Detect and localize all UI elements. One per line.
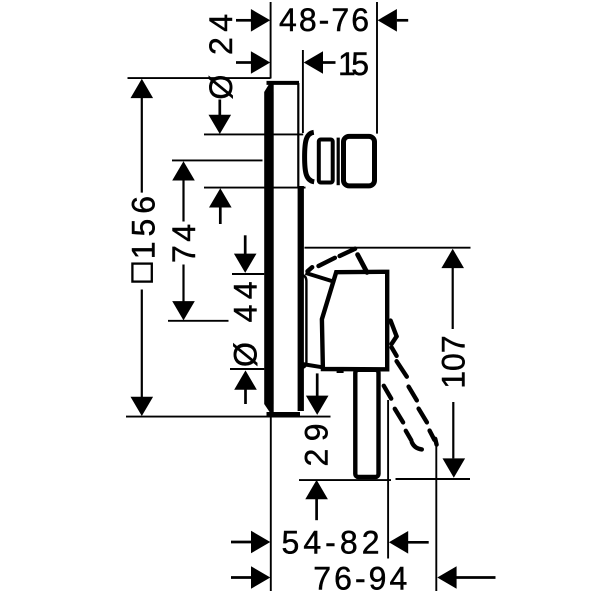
svg-text:156: 156 (126, 196, 162, 259)
arrowhead 29 down (306, 396, 329, 415)
svg-text:54-82: 54-82 (282, 524, 380, 560)
phantom lever top edge dash a1 (308, 267, 313, 271)
wire extension line right of dim 48-76 (376, 2, 378, 134)
phantom lever rotated base corner dash k3 (392, 347, 397, 356)
dim 107 stem top (452, 268, 454, 330)
arrowhead 107 up (441, 249, 464, 268)
arrowhead 156 up (131, 79, 154, 98)
arrowhead 54-82 left (251, 531, 270, 554)
dim 156 stem top (141, 98, 143, 193)
arrowhead 74 down (172, 301, 195, 320)
phantom lever rotated base corner dash k1 (391, 321, 397, 337)
dim 76-94 leader right (456, 576, 495, 579)
dim d24 stem bottom (219, 207, 222, 224)
lever grip (355, 370, 378, 477)
knob collar bell (305, 132, 315, 182)
escutcheon plate back edge upper (297, 83, 299, 187)
lever body set screw tab (337, 369, 344, 373)
dim 54-82 leader left (231, 541, 252, 544)
arrowhead d44 down (234, 254, 257, 273)
dim 48-76 leader right (397, 19, 408, 22)
svg-text:107: 107 (436, 335, 472, 389)
knob joint line (337, 138, 340, 186)
arrowhead d44 up (234, 370, 257, 389)
wire extension line sleeve top (d44) (232, 273, 264, 275)
arrowhead 74 up (172, 161, 195, 180)
wire extension line lever end (76-94) (435, 446, 437, 591)
dim 15 leader right (323, 61, 336, 64)
dim 15 leader left (236, 61, 251, 64)
wire extension line left of dim 48-76 (270, 2, 272, 79)
wire extension line plate top (156) (128, 77, 271, 79)
arrowhead 48-76 right (378, 9, 397, 32)
svg-text:76-94: 76-94 (313, 561, 407, 597)
arrowhead 54-82 right (389, 531, 408, 554)
dim 156 stem bottom (141, 290, 143, 398)
dim 29 stem bottom (315, 499, 318, 520)
phantom grip left line dash d3 (406, 431, 412, 441)
phantom grip end cap dash (412, 442, 422, 449)
wire extension line right of dim 15 (302, 50, 304, 133)
wire extension line lever axis (74) (168, 320, 229, 322)
arrowhead 156 down (131, 397, 154, 416)
arrowhead d24 down (209, 115, 232, 134)
dim 48-76 leader left (236, 19, 251, 22)
svg-text:15: 15 (338, 46, 369, 82)
svg-text:48-76: 48-76 (279, 2, 369, 38)
phantom grip end cap tick (435, 439, 436, 445)
lever neck bottom line (303, 364, 323, 367)
escutcheon plate top edge (267, 81, 300, 85)
arrowhead d24 up (209, 188, 232, 207)
arrowhead 107 down (443, 458, 466, 477)
phantom lever top edge dash a2 (319, 258, 335, 266)
dim 76-94 leader left (231, 576, 252, 579)
wire extension line plate bottom (156/29) (126, 416, 331, 418)
arrowhead 76-94 left (251, 566, 270, 589)
wire extension line knob bottom (d24) (204, 187, 306, 189)
dim 74 stem top (182, 180, 184, 222)
dim 107 stem bottom (452, 402, 454, 458)
escutcheon plate bottom edge (267, 412, 301, 416)
escutcheon plate back edge lower (thick) (298, 186, 304, 411)
knob middle cylinder (319, 140, 333, 183)
wire extension line lever up position (107) (305, 247, 471, 249)
wire extension line grip end (29) (299, 479, 391, 481)
lever body (322, 272, 387, 370)
dim 54-82 leader right (408, 541, 429, 544)
phantom lever right edge start dash b (358, 255, 367, 273)
wire extension line lever end (54-82) (387, 400, 389, 559)
label square156 square symbol (132, 264, 151, 282)
arrowhead 15 left (251, 51, 270, 74)
wire extension line wall face bottom (270, 417, 272, 591)
phantom grip right line dash c3 (419, 409, 427, 423)
arrowhead 48-76 left (251, 9, 270, 32)
dim 29 stem top (316, 373, 319, 396)
phantom grip left line dash d1 (384, 386, 391, 399)
lever neck top line (306, 273, 335, 282)
phantom lever rotated base corner dash k2 (392, 336, 397, 344)
dim d44 stem bottom (244, 389, 247, 404)
arrowhead 76-94 right (437, 566, 456, 589)
wire extension line sleeve bottom (d44) (230, 368, 264, 370)
arrowhead 29 up (305, 480, 328, 499)
wire extension line knob top (d24) (204, 133, 303, 135)
wire extension line knob axis (74) (172, 159, 263, 161)
phantom grip right line dash c4 (430, 431, 435, 440)
wire extension line lever down end (107) (396, 478, 471, 480)
phantom grip left line dash d2 (395, 409, 403, 423)
phantom grip right line dash c1 (397, 361, 407, 377)
dim d24 stem top (218, 100, 221, 116)
escutcheon plate front face (264, 82, 274, 414)
handle sleeve front edge (301, 275, 306, 368)
phantom grip right line dash c2 (409, 387, 417, 401)
dim d44 stem top (244, 235, 247, 254)
dim 74 stem bottom (182, 265, 184, 302)
arrowhead 15 right (304, 51, 323, 74)
phantom lever top edge dash a3 (340, 249, 356, 256)
knob front cap (344, 136, 375, 186)
